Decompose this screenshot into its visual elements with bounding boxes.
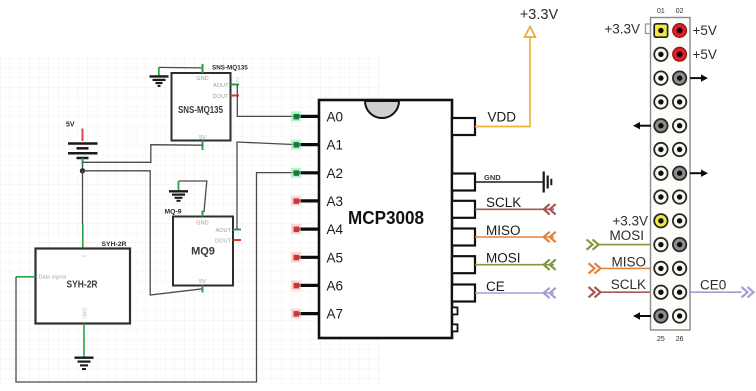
svg-text:A0: A0 xyxy=(327,109,344,124)
ground symbol (chip GND) xyxy=(544,172,552,193)
svg-text:MISO: MISO xyxy=(486,223,521,238)
header pin 08 xyxy=(673,95,686,108)
svg-text:+3.3V: +3.3V xyxy=(604,22,640,37)
pin A7 xyxy=(291,307,343,322)
svg-text:MISO: MISO xyxy=(611,255,646,270)
pin A6 xyxy=(291,278,343,293)
svg-text:DOUT: DOUT xyxy=(213,94,229,100)
svg-text:AOUT: AOUT xyxy=(215,228,231,234)
pin A2 xyxy=(291,166,343,181)
header pin 03 xyxy=(654,48,667,61)
svg-text:02: 02 xyxy=(676,8,684,15)
power symbol +3.3V xyxy=(520,7,559,37)
wire MISO to header pin 21 xyxy=(589,263,661,273)
svg-text:GND: GND xyxy=(196,76,208,82)
svg-text:Data signal: Data signal xyxy=(39,275,67,281)
svg-text:26: 26 xyxy=(676,336,684,343)
header pin 16 xyxy=(673,190,686,203)
svg-text:5V: 5V xyxy=(199,279,206,285)
wire MQ9 AOUT to A1 xyxy=(237,142,296,230)
pin GND (chip) xyxy=(452,173,501,191)
ground symbol (SYH-2R GND) xyxy=(75,358,94,369)
header pin 05 xyxy=(654,71,667,84)
header pin 06 GND xyxy=(673,71,686,84)
pin VDD xyxy=(452,110,516,136)
wire VDD to +3.3V xyxy=(475,37,530,127)
wire SYH-2R data signal (green segment) xyxy=(16,276,36,278)
wire SNS-MQ135 GND to ground xyxy=(159,67,203,76)
pin stub DGND xyxy=(452,307,458,314)
pin A1 xyxy=(291,138,343,153)
wire battery to SNS-MQ135 5V xyxy=(83,145,203,163)
svg-text:SYH-2R: SYH-2R xyxy=(102,241,127,248)
battery 5V xyxy=(66,122,98,165)
svg-text:SNS-MQ135: SNS-MQ135 xyxy=(212,65,248,72)
svg-text:A4: A4 xyxy=(327,222,344,237)
header pin 14 GND xyxy=(673,167,686,180)
header pin 19 MOSI xyxy=(654,238,667,251)
sensor SYH-2R xyxy=(36,241,131,324)
wire-end marker at header +3.3V xyxy=(646,24,653,34)
header pin 11 xyxy=(654,143,667,156)
wire SNS-MQ135 AOUT to A0 xyxy=(237,85,296,117)
svg-text:+3.3V: +3.3V xyxy=(520,7,559,23)
wire SYH-2R data to A2 (long route) xyxy=(16,173,296,382)
wire CE net xyxy=(475,288,556,298)
svg-text:1: 1 xyxy=(81,255,87,258)
header pin 07 xyxy=(654,95,667,108)
svg-text:MQ-9: MQ-9 xyxy=(165,209,182,216)
wire MQ9 GND to ground xyxy=(179,181,207,212)
svg-text:5V: 5V xyxy=(199,135,206,141)
header pin 02 +5V xyxy=(673,24,687,38)
wire junction to MQ9 5V xyxy=(83,171,203,295)
header pin 24 CE0 xyxy=(673,286,686,299)
sensor SNS-MQ135 xyxy=(172,64,249,150)
header pin 22 xyxy=(673,262,686,275)
header pin 18 xyxy=(673,214,686,227)
svg-text:+5V: +5V xyxy=(693,23,717,38)
svg-text:MOSI: MOSI xyxy=(609,228,644,243)
wire SCLK to header pin 23 xyxy=(589,287,661,297)
header pin 10 xyxy=(673,119,686,132)
header pin 21 MISO xyxy=(654,262,667,275)
pin MISO xyxy=(452,223,521,246)
svg-text:+5V: +5V xyxy=(693,47,717,62)
arrow GND left (row5) xyxy=(633,122,651,129)
wire MISO net xyxy=(475,232,556,242)
svg-text:SCLK: SCLK xyxy=(611,277,646,292)
svg-text:A1: A1 xyxy=(327,138,344,153)
arrow GND right (row3) xyxy=(690,74,708,81)
pin SCLK xyxy=(452,195,521,218)
header pin 09 GND xyxy=(654,119,667,132)
wire SYH-2R GND to ground xyxy=(83,324,85,358)
svg-text:SNS-MQ135: SNS-MQ135 xyxy=(178,105,223,116)
svg-text:A5: A5 xyxy=(327,250,344,265)
connector J1 GPIO header body xyxy=(651,18,691,331)
pin A0 xyxy=(291,109,343,124)
svg-text:+3.3V: +3.3V xyxy=(612,213,648,228)
pin A5 xyxy=(291,250,343,265)
wire GND to ground xyxy=(475,181,543,183)
svg-text:GND: GND xyxy=(196,221,208,227)
header pin 12 xyxy=(673,143,686,156)
svg-text:2: 2 xyxy=(236,78,239,84)
svg-text:MOSI: MOSI xyxy=(486,251,521,266)
svg-text:AOUT: AOUT xyxy=(213,83,229,89)
arrow GND left (row13) xyxy=(633,312,651,319)
wire MOSI net xyxy=(475,260,556,270)
sensor MQ9 xyxy=(165,209,242,293)
svg-text:GND: GND xyxy=(484,173,501,182)
svg-text:A2: A2 xyxy=(327,166,344,181)
svg-text:MCP3008: MCP3008 xyxy=(348,208,424,228)
header pin 01 +3.3V (yellow square) xyxy=(654,24,667,37)
svg-text:A7: A7 xyxy=(327,307,344,322)
pin A3 xyxy=(291,194,343,209)
pin CE xyxy=(452,279,505,302)
wire CE0 from header pin 24 xyxy=(680,287,754,297)
header pin 23 SCLK xyxy=(654,286,667,299)
svg-text:25: 25 xyxy=(657,336,665,343)
wire battery down to junction xyxy=(82,165,84,171)
ground symbol (SNS-MQ135 GND) xyxy=(150,76,169,86)
header pin 04 +5V xyxy=(673,47,687,61)
header pin 13 xyxy=(654,167,667,180)
svg-text:GND: GND xyxy=(81,307,87,319)
junction node 5V xyxy=(80,168,85,173)
svg-text:A6: A6 xyxy=(327,278,344,293)
arrow GND right (row7) xyxy=(690,170,708,177)
svg-text:SCLK: SCLK xyxy=(486,195,521,210)
svg-text:CE0: CE0 xyxy=(700,278,726,293)
wire SCLK net xyxy=(475,204,556,214)
header pin 15 xyxy=(654,190,667,203)
svg-text:VDD: VDD xyxy=(488,110,517,125)
header pin 17 +3.3V (yellow) xyxy=(654,214,667,227)
svg-text:DOUT: DOUT xyxy=(215,239,231,245)
IC U1 MCP3008 body xyxy=(319,100,452,338)
svg-text:CE: CE xyxy=(486,279,505,294)
pin MOSI xyxy=(452,251,521,274)
svg-text:MQ9: MQ9 xyxy=(191,246,215,258)
pin stub AGND xyxy=(452,324,458,331)
wire MOSI to header pin 19 xyxy=(587,239,661,249)
pin A4 xyxy=(291,222,344,237)
wire junction to SYH-2R VCC xyxy=(82,171,84,249)
header pin 20 GND xyxy=(673,238,686,251)
svg-text:5V: 5V xyxy=(66,122,75,129)
svg-text:01: 01 xyxy=(657,8,665,15)
header pin 25 GND xyxy=(654,309,667,322)
svg-text:A3: A3 xyxy=(327,194,344,209)
ground symbol (MQ9 GND) xyxy=(169,191,188,201)
svg-text:SYH-2R: SYH-2R xyxy=(67,279,98,291)
header pin 26 xyxy=(673,309,686,322)
